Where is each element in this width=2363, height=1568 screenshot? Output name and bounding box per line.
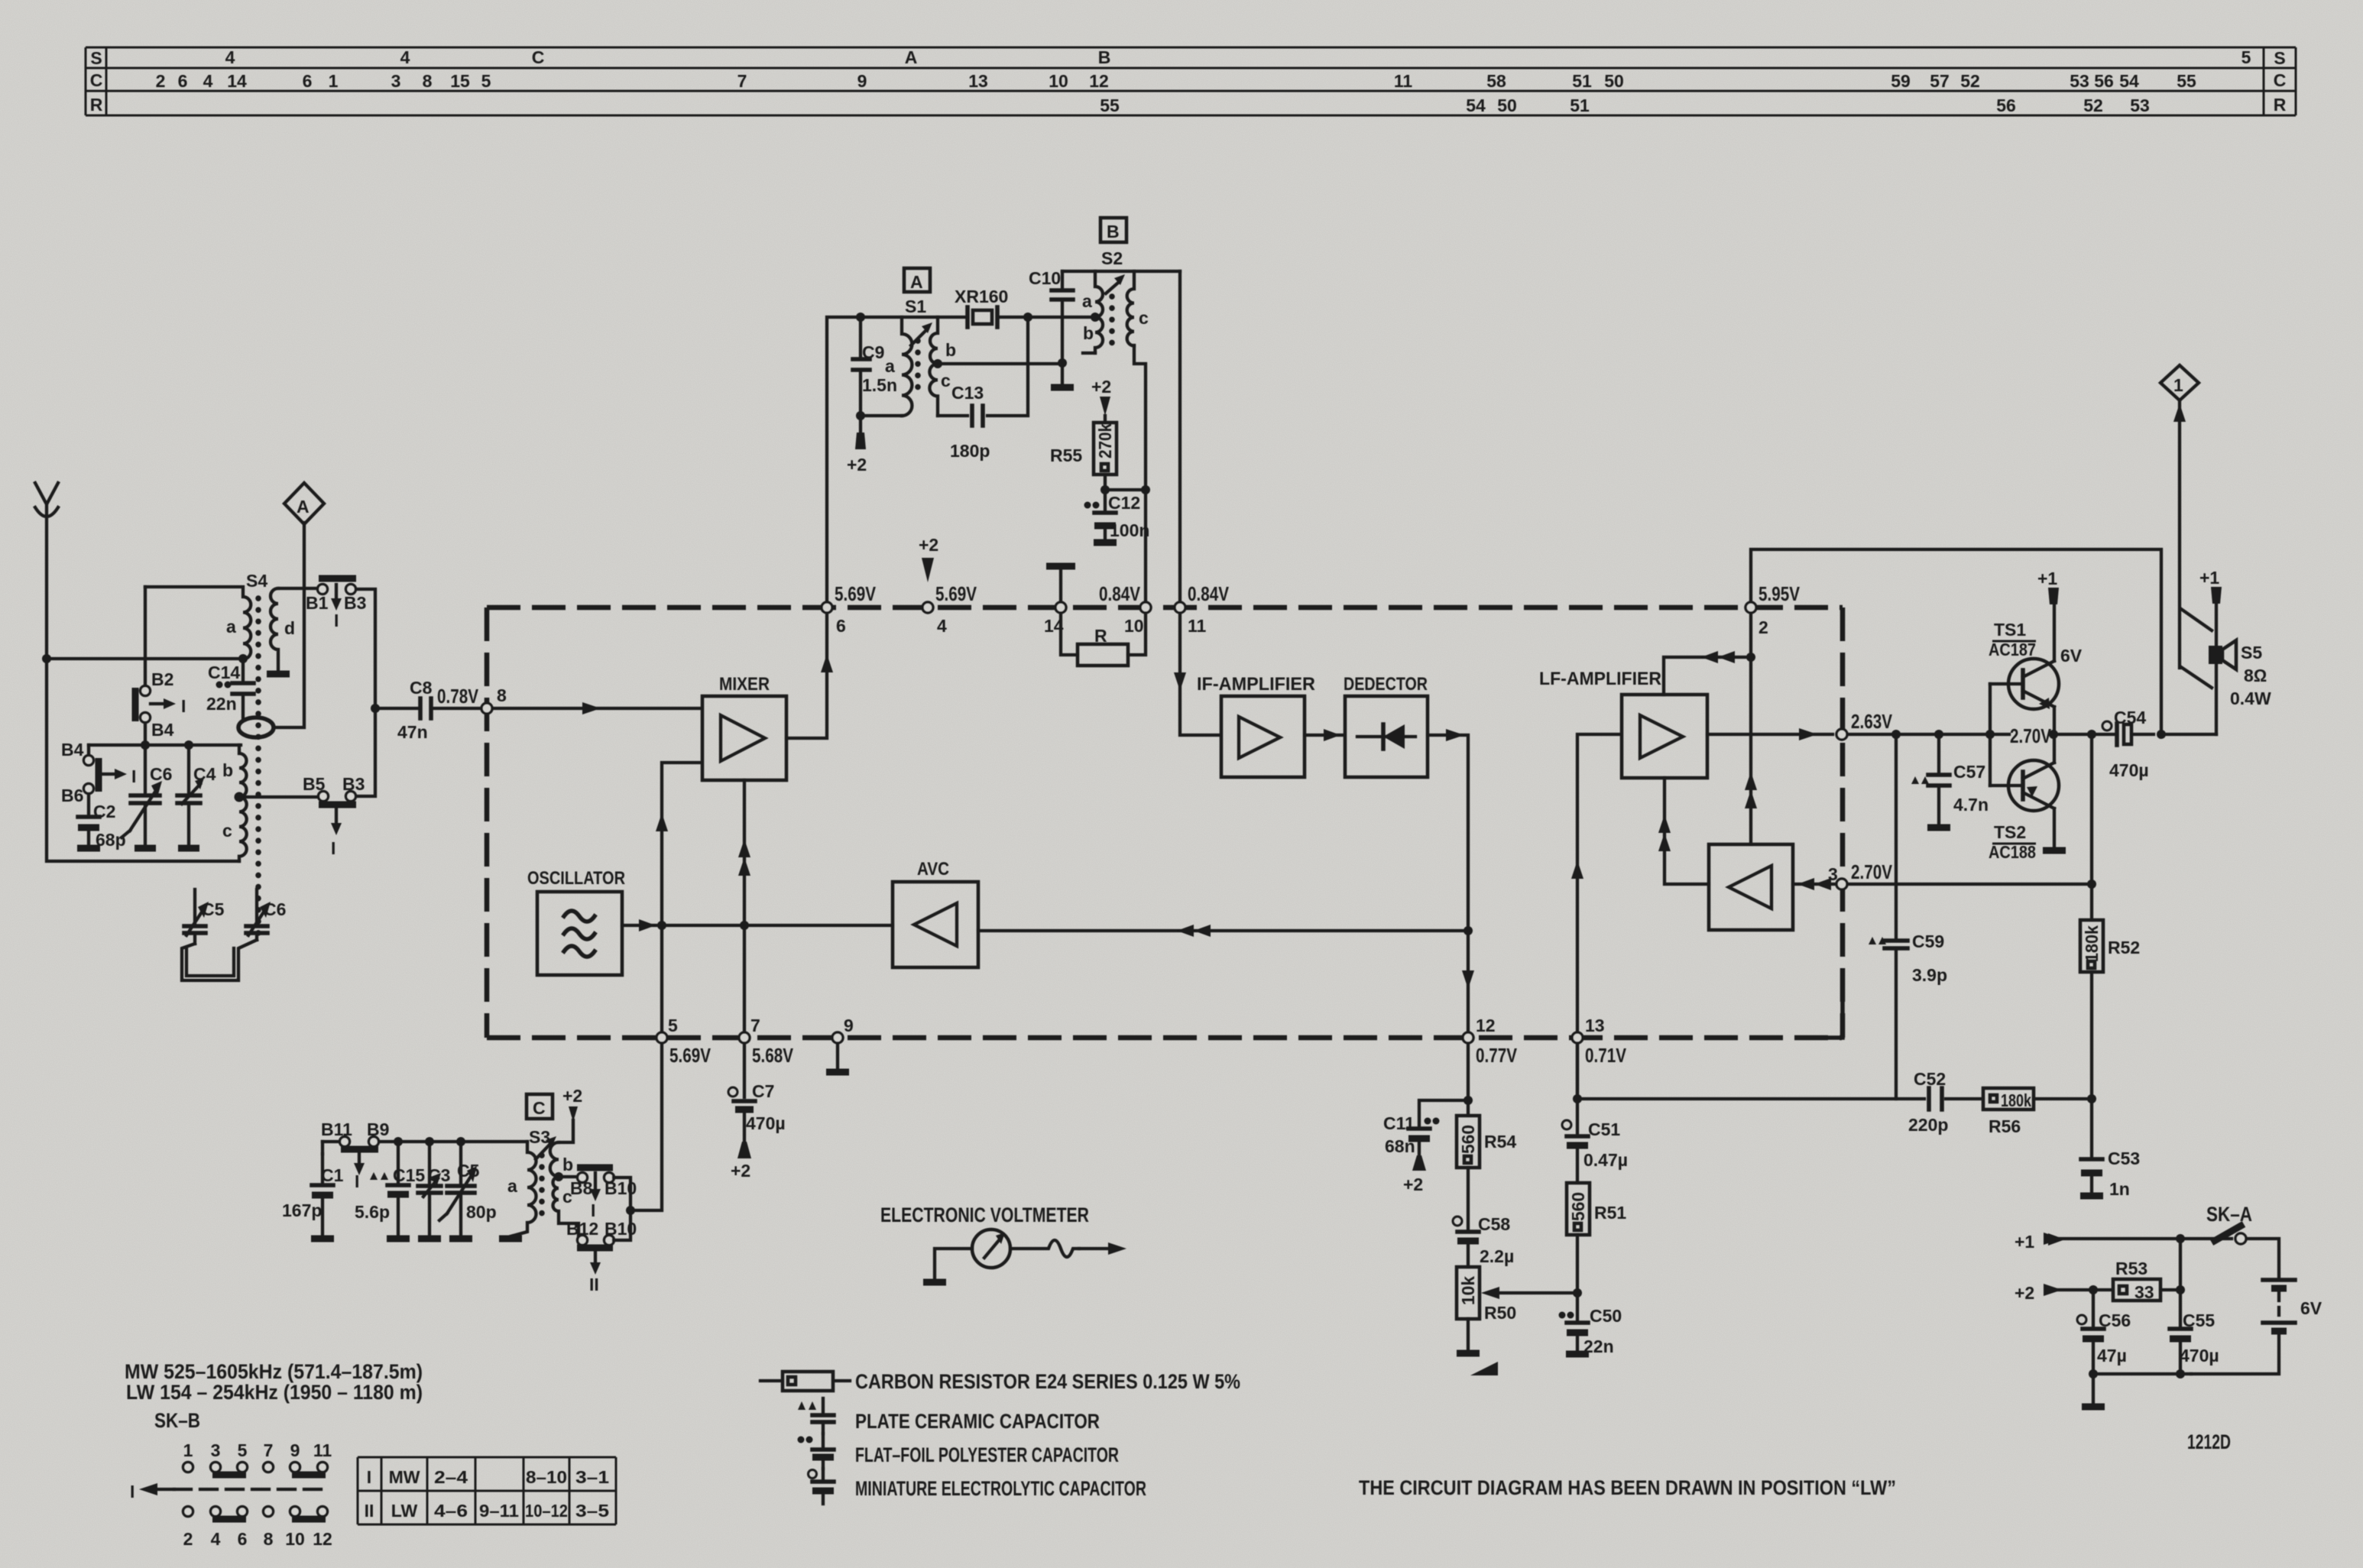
svg-text:5: 5 — [238, 1440, 248, 1460]
resistor R55 270k — [1050, 377, 1117, 490]
svg-text:12: 12 — [1476, 1016, 1496, 1035]
svg-text:C54: C54 — [2114, 708, 2146, 727]
wire: pin13 lower rail to C52 — [1577, 1045, 1924, 1099]
svg-text:B6: B6 — [61, 786, 83, 805]
transformer S2 core and trimmer arrow — [1109, 296, 1115, 345]
svg-text:I: I — [181, 696, 186, 716]
svg-text:5: 5 — [2241, 47, 2251, 67]
svg-text:C3: C3 — [428, 1165, 450, 1185]
wire: tuning rail — [89, 744, 241, 747]
svg-text:+2: +2 — [2015, 1283, 2034, 1303]
svg-text:a: a — [226, 617, 236, 637]
pin 6 — [822, 602, 832, 613]
wire: junction to LF amp top input — [1664, 657, 1751, 695]
pin 7 — [739, 1032, 750, 1043]
oscillator tank rail — [323, 1140, 527, 1143]
switch B12/B10 — [566, 1219, 637, 1294]
ruler row letters right — [2274, 48, 2287, 115]
svg-text:B9: B9 — [367, 1119, 389, 1139]
svg-text:b: b — [1083, 323, 1094, 343]
svg-text:I: I — [591, 1200, 595, 1220]
svg-text:4–6: 4–6 — [434, 1501, 468, 1521]
pin 14 — [1055, 602, 1066, 613]
svg-text:R56: R56 — [1989, 1116, 2021, 1136]
svg-text:0.47µ: 0.47µ — [1583, 1150, 1628, 1170]
svg-text:5.69V: 5.69V — [935, 582, 977, 605]
capacitor C55 470u — [2170, 1310, 2219, 1366]
svg-text:LW: LW — [391, 1501, 418, 1521]
svg-text:52: 52 — [2083, 96, 2103, 115]
wire: mixer lower-left input from oscillator junction — [662, 763, 701, 925]
svg-text:R: R — [90, 95, 103, 115]
svg-text:3–1: 3–1 — [575, 1467, 609, 1487]
wire: TS1 emitter to rail — [2053, 707, 2056, 734]
wire: TS2 emitter to ground — [2053, 808, 2056, 848]
wire: pin6 riser up to S1 tank — [827, 317, 861, 601]
svg-text:58: 58 — [1486, 71, 1506, 91]
svg-text:68n: 68n — [1385, 1136, 1415, 1156]
wire: pin 2 down to feedback junction — [1749, 614, 1752, 844]
svg-text:22n: 22n — [206, 694, 237, 714]
svg-text:54: 54 — [1466, 96, 1486, 115]
gang coupling bracket — [182, 940, 257, 980]
svg-text:4: 4 — [400, 47, 410, 67]
svg-text:MIXER: MIXER — [719, 674, 770, 695]
svg-text:5.95V: 5.95V — [1758, 582, 1801, 605]
capacitor C15 5.6p — [355, 1137, 425, 1239]
svg-text:2: 2 — [183, 1529, 193, 1549]
svg-text:1212D: 1212D — [2187, 1430, 2231, 1453]
wire: coil c bottom down to pin 10 — [1134, 345, 1146, 601]
svg-text:1.5n: 1.5n — [862, 375, 897, 395]
transformer S3 coil b — [550, 1142, 559, 1177]
svg-text:10: 10 — [1049, 71, 1068, 91]
svg-text:I: I — [331, 838, 335, 858]
wire: pin8 to mixer with arrow — [494, 707, 701, 710]
svg-text:C51: C51 — [1588, 1119, 1620, 1139]
svg-text:R: R — [2274, 95, 2287, 115]
svg-text:AVC: AVC — [917, 859, 949, 880]
svg-text:51: 51 — [1572, 71, 1592, 91]
svg-text:13: 13 — [1585, 1016, 1605, 1035]
+2 tap for S3 — [569, 1106, 578, 1122]
capacitor C56 47u — [2077, 1290, 2131, 1374]
svg-text:5: 5 — [668, 1016, 678, 1035]
transformer S4 coil b — [239, 745, 247, 797]
legend: flat-foil polyester capacitor — [798, 1434, 1120, 1469]
capacitor C58 2.2u — [1453, 1214, 1514, 1267]
svg-text:2: 2 — [156, 71, 166, 91]
svg-text:3: 3 — [391, 71, 401, 91]
svg-text:6: 6 — [178, 71, 188, 91]
svg-text:S5: S5 — [2241, 643, 2262, 663]
svg-text:52: 52 — [1960, 71, 1980, 91]
legend: carbon resistor — [760, 1370, 1240, 1393]
svg-text:4: 4 — [211, 1529, 221, 1549]
svg-text:6: 6 — [303, 71, 313, 91]
ferrite rod ellipse — [238, 718, 274, 737]
capacitor C50 22n — [1559, 1293, 1622, 1356]
resistor R51 560 — [1567, 1183, 1626, 1293]
capacitor C7 470u electrolytic — [728, 1045, 786, 1181]
svg-text:C52: C52 — [1914, 1069, 1946, 1089]
headphone jack diamond 1 — [2160, 365, 2199, 668]
svg-text:47µ: 47µ — [2097, 1346, 2127, 1366]
node: S1 b/c tap — [933, 359, 942, 368]
svg-text:8: 8 — [264, 1529, 274, 1549]
svg-text:C13: C13 — [951, 383, 984, 403]
wire: coil d top to B1 — [278, 587, 317, 590]
svg-text:167p: 167p — [282, 1200, 322, 1220]
svg-text:LW 154 – 254kHz (1950 – 1180: LW 154 – 254kHz (1950 – 1180 m) — [126, 1381, 423, 1404]
svg-text:B3: B3 — [342, 774, 365, 794]
pin 4 with +2 feed — [922, 602, 933, 613]
svg-text:+2: +2 — [847, 455, 867, 475]
svg-text:c: c — [1139, 308, 1149, 328]
wire: pin3 line to R52 — [1849, 883, 2092, 886]
trimmer capacitor C4 — [177, 745, 216, 848]
svg-text:S1: S1 — [905, 296, 926, 316]
capacitor C8 47n — [371, 678, 480, 742]
ruler R row values — [1100, 96, 2150, 115]
svg-text:15: 15 — [450, 71, 470, 91]
variable capacitor C5 80p — [439, 1137, 497, 1239]
svg-text:C9: C9 — [862, 342, 884, 362]
svg-text:5.69V: 5.69V — [669, 1044, 711, 1067]
svg-text:B12: B12 — [566, 1219, 598, 1239]
connector diamond A — [284, 483, 324, 524]
svg-text:C6: C6 — [150, 764, 172, 784]
svg-text:S: S — [90, 48, 102, 68]
node on output rail at dashed crossing — [1836, 729, 1847, 740]
transformer S2 coil a+b — [1095, 271, 1103, 353]
svg-text:0.78V: 0.78V — [437, 685, 479, 708]
resistor R56 180k — [1983, 1088, 2092, 1136]
wire: pin 11 down to IF amplifier — [1180, 614, 1220, 735]
svg-text:560: 560 — [1458, 1125, 1478, 1154]
svg-text:C7: C7 — [752, 1081, 774, 1101]
svg-text:2.2µ: 2.2µ — [1480, 1246, 1514, 1266]
svg-text:ELECTRONIC VOLTMETER: ELECTRONIC VOLTMETER — [880, 1204, 1089, 1226]
svg-text:I: I — [367, 1467, 371, 1487]
svg-text:+2: +2 — [1403, 1174, 1423, 1194]
pin 9 grounded — [832, 1032, 843, 1043]
svg-text:50: 50 — [1497, 96, 1517, 115]
jack switch contacts — [2181, 609, 2212, 688]
pin 12 — [1463, 1032, 1473, 1043]
DEDECTOR block with diode — [1344, 674, 1428, 777]
svg-text:R54: R54 — [1484, 1132, 1516, 1152]
svg-text:+2: +2 — [731, 1161, 750, 1181]
wire: IF amp to detector — [1305, 734, 1344, 737]
svg-text:MW 525–1605kHz (571.4–187.5m): MW 525–1605kHz (571.4–187.5m) — [125, 1360, 423, 1383]
speaker S5 — [2048, 568, 2271, 1246]
svg-text:R50: R50 — [1484, 1303, 1516, 1323]
transformer S4 coil c — [239, 797, 247, 861]
svg-text:180k: 180k — [2082, 925, 2102, 962]
band legend text — [125, 1360, 423, 1404]
wire: S2 b bottom stub — [1083, 352, 1095, 355]
svg-text:55: 55 — [1100, 96, 1120, 115]
capacitor C9 1.5n — [853, 317, 897, 416]
svg-text:DEDECTOR: DEDECTOR — [1344, 674, 1428, 695]
svg-text:5.68V: 5.68V — [752, 1044, 794, 1067]
svg-text:47n: 47n — [397, 722, 428, 742]
svg-text:CARBON RESISTOR E24 SERIES: CARBON RESISTOR E24 SERIES 0.125 W 5% — [855, 1370, 1240, 1393]
svg-text:7: 7 — [750, 1016, 760, 1035]
wire: LF output to pin 2 node rail — [1707, 733, 1833, 736]
svg-text:560: 560 — [1568, 1192, 1588, 1221]
capacitor C52 220p — [1908, 1069, 1982, 1135]
svg-text:59: 59 — [1891, 71, 1911, 91]
svg-text:a: a — [507, 1176, 517, 1196]
svg-text:d: d — [284, 618, 295, 638]
svg-text:C8: C8 — [410, 678, 433, 698]
svg-text:9: 9 — [290, 1440, 300, 1460]
wire: coil tap to B5 — [241, 795, 318, 799]
ground under coil d — [267, 671, 290, 678]
pin 5 — [656, 1032, 667, 1043]
wire: oscillator junction down to pin 5 — [660, 925, 663, 1031]
wire: volume block right to pin 3 — [1793, 883, 1834, 886]
svg-text:33: 33 — [2134, 1282, 2154, 1302]
svg-text:C: C — [2274, 70, 2287, 90]
svg-text:5.69V: 5.69V — [835, 582, 877, 605]
pin 10 — [1140, 602, 1151, 613]
svg-text:I: I — [334, 611, 339, 630]
svg-text:55: 55 — [2177, 71, 2196, 91]
svg-text:THE CIRCUIT DIAGRAM HAS BE: THE CIRCUIT DIAGRAM HAS BEEN DRAWN IN PO… — [1359, 1476, 1896, 1499]
+1 rail with switch SK-A — [2015, 1224, 2279, 1278]
svg-text:56: 56 — [2094, 71, 2114, 91]
svg-text:R: R — [1094, 626, 1107, 646]
node: antenna junction — [42, 654, 51, 663]
svg-text:3: 3 — [1828, 864, 1838, 884]
svg-text:180k: 180k — [2001, 1090, 2031, 1110]
switch B5/B3 lower — [303, 774, 365, 858]
svg-text:7: 7 — [737, 71, 747, 91]
switch B2/B4 — [135, 669, 186, 740]
svg-text:14: 14 — [227, 71, 247, 91]
band switch table — [358, 1457, 616, 1524]
wire: pin 13 riser to LF amplifier — [1577, 734, 1620, 1031]
node below C9 — [856, 411, 865, 420]
svg-text:SK–B: SK–B — [154, 1409, 200, 1432]
wire: tank left edge and bottom rail — [47, 659, 239, 861]
+2 tap below C9 — [859, 416, 862, 432]
svg-text:C10: C10 — [1029, 268, 1061, 288]
ground rail under supply — [2093, 1372, 2191, 1375]
svg-text:2.70V: 2.70V — [2010, 724, 2052, 747]
svg-text:220p: 220p — [1908, 1115, 1948, 1135]
IF-AMPLIFIER block — [1197, 674, 1315, 777]
svg-text:C53: C53 — [2108, 1148, 2140, 1168]
ganged trimmer C6 (mechanical) — [246, 889, 286, 940]
capacitor C54 470u — [2053, 708, 2154, 780]
svg-text:10: 10 — [285, 1529, 305, 1549]
pin 2 — [1746, 602, 1756, 613]
svg-text:B1: B1 — [306, 593, 329, 613]
svg-text:C: C — [533, 1098, 546, 1118]
svg-text:5: 5 — [481, 71, 491, 91]
wire: XR160 junction to S2 tap — [1028, 316, 1094, 319]
svg-text:c: c — [941, 371, 951, 390]
wire: TS2 collector to rail — [2053, 734, 2056, 763]
transformer S4 dotted core — [255, 598, 261, 941]
svg-text:C11: C11 — [1383, 1113, 1415, 1133]
wire: C54 to speaker — [2161, 733, 2216, 736]
capacitor C11 68n — [1383, 1100, 1468, 1194]
svg-text:AC188: AC188 — [1989, 842, 2036, 862]
svg-text:PLATE CERAMIC CAPACITOR: PLATE CERAMIC CAPACITOR — [855, 1410, 1100, 1433]
wire: tap line to C10 — [938, 362, 1062, 365]
svg-text:B4: B4 — [61, 740, 84, 760]
svg-text:3–5: 3–5 — [575, 1501, 609, 1521]
MIXER block — [702, 674, 786, 780]
svg-text:8: 8 — [423, 71, 433, 91]
pin 13 — [1572, 1032, 1583, 1043]
svg-text:C58: C58 — [1478, 1214, 1510, 1234]
svg-text:C5: C5 — [202, 899, 225, 919]
legend: plate ceramic capacitor — [798, 1398, 1100, 1434]
ruler S row values — [225, 47, 2251, 67]
svg-text:+1: +1 — [2015, 1232, 2034, 1252]
svg-text:SK–A: SK–A — [2206, 1203, 2252, 1226]
capacitor C10 — [1029, 268, 1073, 386]
svg-text:4.7n: 4.7n — [1953, 795, 1989, 815]
svg-text:C4: C4 — [193, 764, 216, 784]
svg-text:8: 8 — [497, 685, 507, 705]
+2 rail with R53 — [2015, 1283, 2112, 1303]
svg-text:80p: 80p — [466, 1202, 497, 1222]
transformer S2 coil c — [1127, 271, 1134, 345]
svg-text:5.6p: 5.6p — [355, 1202, 390, 1222]
crystal XR160 — [861, 287, 1028, 327]
svg-text:57: 57 — [1930, 71, 1950, 91]
svg-text:0.84V: 0.84V — [1099, 582, 1141, 605]
wire: pin 5 to band switch B10 — [636, 1045, 662, 1210]
svg-text:c: c — [222, 821, 232, 841]
capacitor C14 22n — [206, 659, 254, 718]
variable capacitor C6 — [122, 745, 172, 848]
capacitor C59 3.9p — [1869, 734, 1947, 1099]
svg-text:B2: B2 — [151, 669, 173, 689]
node: coil tap — [235, 792, 245, 802]
switch B11/B9 — [321, 1119, 389, 1191]
svg-text:R52: R52 — [2108, 938, 2140, 957]
svg-text:IF-AMPLIFIER: IF-AMPLIFIER — [1197, 674, 1315, 695]
legend: miniature electrolytic capacitor — [809, 1469, 1147, 1504]
wire: TS1 collector to +1 — [2053, 606, 2056, 661]
wire: B2 riser from S4 top rail — [144, 587, 147, 685]
svg-text:C57: C57 — [1953, 762, 1985, 782]
svg-text:C55: C55 — [2183, 1310, 2215, 1330]
svg-text:6V: 6V — [2060, 646, 2083, 666]
svg-text:LF-AMPLIFIER: LF-AMPLIFIER — [1539, 669, 1661, 689]
svg-text:1: 1 — [329, 71, 339, 91]
wire: mixer output to pin 6 riser — [786, 614, 827, 738]
resistor R53 33 — [2113, 1259, 2180, 1302]
AVC block — [893, 859, 978, 967]
svg-text:C: C — [90, 70, 103, 90]
transformer S1 core and trimmer arrow — [915, 341, 921, 394]
wire: detector output to pin 12 branch — [1428, 735, 1468, 1031]
transformer S1 coil b — [930, 317, 938, 364]
svg-text:10: 10 — [1124, 616, 1144, 636]
svg-text:1n: 1n — [2109, 1179, 2130, 1199]
svg-text:8–10: 8–10 — [526, 1467, 567, 1487]
SK-B switch diagram — [130, 1440, 332, 1549]
wire: S1 bottom to C13 — [938, 317, 1028, 416]
svg-text:C1: C1 — [321, 1165, 344, 1185]
IC dashed boundary box — [487, 607, 1843, 1038]
svg-text:4: 4 — [225, 47, 235, 67]
resistor R52 180k — [2080, 730, 2140, 1099]
svg-text:C12: C12 — [1108, 493, 1140, 513]
wire: AVC return line — [978, 929, 1468, 932]
transformer S4 coil d — [271, 588, 278, 672]
svg-text:b: b — [945, 340, 956, 360]
switch B4/B6 — [61, 740, 136, 805]
transistor TS1 AC187 — [1989, 620, 2059, 709]
base tie line — [1989, 684, 1992, 786]
svg-text:C6: C6 — [264, 899, 286, 919]
svg-text:II: II — [365, 1501, 374, 1521]
svg-text:B: B — [1107, 222, 1120, 241]
svg-text:11: 11 — [1394, 71, 1413, 91]
svg-text:I: I — [355, 1171, 359, 1191]
svg-text:7: 7 — [264, 1440, 274, 1460]
capacitor C12 100n — [1084, 490, 1150, 543]
svg-text:MINIATURE ELECTROLYTIC CAPAC: MINIATURE ELECTROLYTIC CAPACITOR — [855, 1477, 1146, 1500]
svg-text:a: a — [885, 356, 895, 376]
svg-text:6: 6 — [238, 1529, 248, 1549]
LF-AMPLIFIER block — [1539, 669, 1707, 778]
svg-text:C59: C59 — [1912, 931, 1944, 951]
svg-text:AC187: AC187 — [1989, 640, 2036, 659]
svg-text:1: 1 — [2173, 375, 2183, 395]
svg-text:3: 3 — [211, 1440, 221, 1460]
svg-text:C2: C2 — [93, 802, 115, 821]
svg-text:4: 4 — [937, 616, 947, 636]
svg-text:R51: R51 — [1594, 1203, 1626, 1223]
boxed label C — [527, 1094, 553, 1147]
svg-text:0.4W: 0.4W — [2230, 688, 2271, 708]
svg-text:b: b — [222, 760, 233, 780]
svg-text:50: 50 — [1604, 71, 1624, 91]
svg-text:C15: C15 — [393, 1165, 425, 1185]
capacitor C51 0.47u — [1562, 1045, 1628, 1183]
svg-text:100n: 100n — [1110, 520, 1149, 540]
wire: LF amp bottom to volume block left — [1664, 778, 1709, 884]
svg-text:2: 2 — [1758, 617, 1768, 637]
svg-text:2–4: 2–4 — [434, 1467, 468, 1487]
svg-text:b: b — [562, 1155, 573, 1174]
svg-text:12: 12 — [313, 1529, 332, 1549]
svg-text:9–11: 9–11 — [479, 1501, 519, 1521]
pin 8 — [481, 703, 492, 714]
svg-text:C50: C50 — [1590, 1306, 1622, 1326]
svg-text:B4: B4 — [151, 720, 174, 740]
svg-text:13: 13 — [968, 71, 988, 91]
svg-text:C5: C5 — [457, 1161, 480, 1181]
svg-text:+2: +2 — [562, 1086, 582, 1106]
svg-text:TS1: TS1 — [1994, 620, 2026, 640]
switch B8/B10 — [559, 1168, 637, 1220]
svg-text:+1: +1 — [2037, 569, 2057, 588]
earth above pin 14 — [1059, 569, 1062, 601]
volume control block — [1709, 844, 1793, 930]
